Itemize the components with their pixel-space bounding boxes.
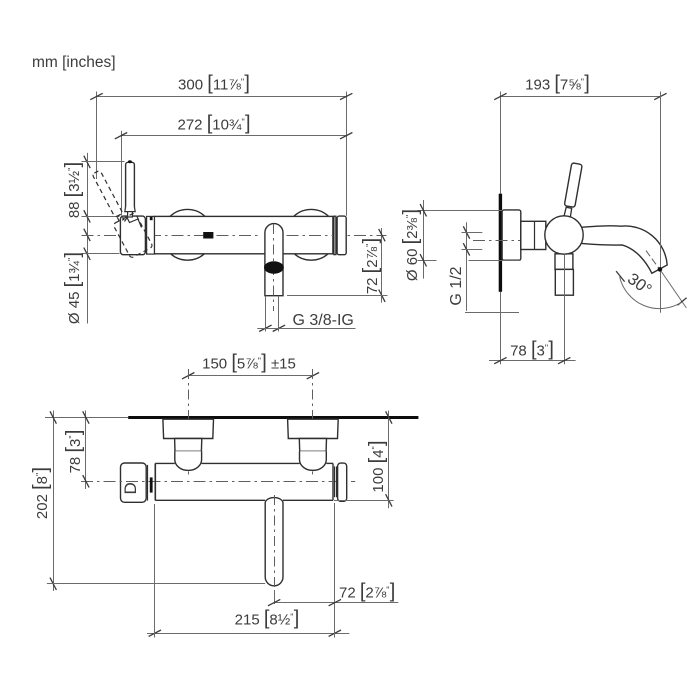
dimension 202 [8"] — [53, 411, 55, 592]
right knob (top view) — [338, 463, 347, 501]
extension line lever top — [82, 161, 125, 163]
dimension 72 [2 7/8"] (top) — [274, 602, 398, 604]
svg-text:G 1/2: G 1/2 — [448, 266, 465, 305]
spout tube axis (top view) — [274, 495, 276, 590]
dimension 215 [8 1/2"] — [147, 633, 349, 635]
extension line at spout tip — [660, 92, 662, 313]
extension line disc top — [418, 210, 503, 212]
joint ring (top view) — [147, 465, 149, 501]
right ring (top view) — [334, 466, 336, 497]
lever grip (front, vertical) — [126, 162, 135, 211]
svg-text:272 [10¾" ]: 272 [10¾" ] — [177, 113, 250, 135]
mixer body (front) — [154, 216, 333, 253]
wall (thick bar) — [499, 194, 502, 292]
valve neck (side) — [521, 221, 546, 249]
lever stem — [128, 212, 133, 217]
extension line spout bottom (front) — [287, 295, 388, 297]
dimension 272 [10 3/4"] — [121, 135, 346, 137]
extension line body top — [82, 216, 120, 218]
front view: extension line right (body end) — [346, 92, 348, 216]
lever grip (side, tilted) — [564, 163, 582, 208]
spout tube axis — [273, 224, 275, 311]
svg-text:Ø 60 [2⅜" ]: Ø 60 [2⅜" ] — [400, 209, 422, 281]
wall union at x=312.9 (top view) — [288, 419, 339, 438]
dashed lever in rotated position — [88, 165, 153, 258]
body centerline (top view) — [81, 481, 355, 483]
wall union at x=188.2 (top view) — [163, 419, 214, 438]
extension line body bottom — [82, 253, 120, 255]
escutcheon disc edge-on — [502, 210, 521, 260]
axis dot at spout mouth — [658, 267, 663, 272]
outlet axis line down to 78 dim — [564, 254, 566, 364]
diverter block below ball — [555, 254, 573, 270]
spout axis extension to angle dim — [661, 271, 686, 308]
extension line left (body joint) — [154, 504, 156, 638]
extension line disc bottom — [418, 260, 437, 262]
front view: extension line left of 272 dim — [121, 131, 123, 216]
extension line right (body end) — [334, 503, 336, 638]
lever foot flare — [125, 207, 135, 212]
G 3/8-IG label leader line — [257, 328, 355, 330]
black index mark (top view) — [150, 477, 153, 492]
svg-text:215 [8½" ]: 215 [8½" ] — [235, 608, 300, 630]
joint ring (front, left) — [147, 216, 155, 254]
svg-text:193 [7⅝" ]: 193 [7⅝" ] — [525, 73, 590, 95]
lever pin on top — [128, 160, 132, 163]
G 1/2 label leader — [465, 312, 519, 314]
spout axis dash near tip — [646, 251, 659, 269]
svg-text:D: D — [121, 482, 140, 494]
detail lines inside escutcheon — [125, 218, 142, 228]
vertical dimension line for 88 and dia45 — [87, 153, 89, 324]
wall union dome left (front) — [162, 209, 213, 260]
dimension 78 [3"] (top) — [85, 411, 87, 490]
wall line (thick) top view — [128, 416, 418, 419]
dimension 150 [5 7/8"] +-15 — [188, 375, 313, 377]
G 1/2 dimension (thread at wall) — [466, 222, 468, 311]
right end cap (front) — [337, 216, 346, 255]
G 3/8 extension lines — [265, 296, 267, 332]
svg-text:mm [inches]: mm [inches] — [32, 54, 116, 71]
aerator mark (black rect on centerline) — [203, 232, 213, 239]
spout tube (top view) — [265, 498, 283, 586]
svg-text:G 3/8-IG: G 3/8-IG — [293, 312, 354, 329]
extension line wall level left — [45, 417, 128, 419]
valve centerline (side) — [473, 240, 546, 242]
dimension 100 [4"] — [388, 411, 390, 509]
mixer body (top view) — [155, 462, 175, 464]
30 degree arc — [620, 277, 681, 309]
joint ring (front, right) — [334, 216, 336, 254]
svg-text:300 [11⅞" ]: 300 [11⅞" ] — [178, 73, 250, 95]
union nut (black ellipse) — [264, 261, 284, 273]
dimension 78 [3"] (side) — [489, 360, 576, 362]
lever cap (top view) with logo — [121, 463, 147, 502]
dimension 72 [2 7/8"] (front) — [381, 228, 383, 303]
neck joint line — [534, 221, 536, 249]
svg-text:Ø 45 [1¾" ]: Ø 45 [1¾" ] — [62, 252, 84, 324]
body centerline (front) — [82, 235, 262, 237]
side view: wall extension line above — [500, 92, 502, 194]
mixer ball (side) — [545, 216, 583, 254]
union axis left — [188, 369, 190, 474]
dimension 193 [7 5/8"] — [500, 96, 660, 98]
spout (side, curved) — [581, 226, 667, 273]
extension line spout end (top view) — [47, 583, 265, 585]
dimension dia 60 [2 3/8"] — [423, 200, 425, 279]
wall union dome right (front) — [286, 209, 337, 260]
spout tube (front) — [265, 224, 283, 296]
dimension 300 [11 7/8"] — [97, 96, 347, 98]
black index mark on ring — [150, 217, 153, 220]
union axis right — [312, 369, 314, 474]
lever stem (side) — [564, 207, 572, 218]
escutcheon of lever valve (front) — [120, 216, 145, 255]
shower outlet G1/2 block — [555, 269, 573, 295]
front view: extension line left of 300 dim — [96, 92, 98, 180]
extension line body front edge — [334, 500, 394, 502]
svg-text:150 [5⅞" ] ±15: 150 [5⅞" ] ±15 — [202, 352, 296, 374]
side view: wall extension line below — [500, 292, 502, 364]
